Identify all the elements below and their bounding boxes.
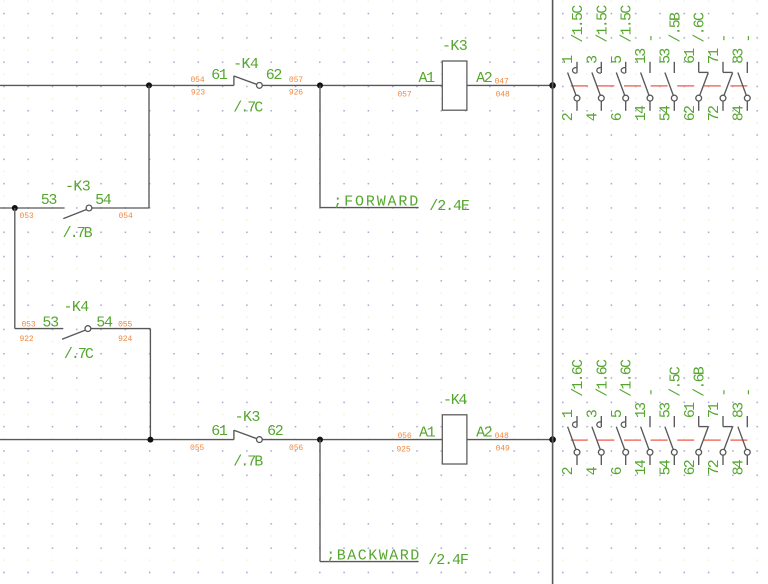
svg-text:-K4: -K4 (443, 392, 467, 409)
contact -K4 53-54 (NO) (62, 326, 91, 340)
svg-text:62: 62 (682, 106, 699, 121)
svg-text:-: - (716, 390, 733, 397)
wire FORWARD underline (320, 207, 419, 209)
svg-text:-K3: -K3 (65, 179, 91, 196)
mirror contact K3 pins 1/2 (MAIN) (568, 62, 580, 111)
svg-text:A2: A2 (476, 424, 492, 441)
node junction rung1/border (549, 82, 556, 89)
svg-text:83: 83 (731, 48, 748, 64)
svg-text:925: 925 (396, 446, 410, 455)
svg-text:14: 14 (633, 459, 650, 475)
contact -K4 61-62 (NC) (234, 76, 262, 89)
svg-text:049: 049 (496, 445, 510, 454)
svg-text:/.5B: /.5B (667, 12, 684, 43)
mirror contact K3 pins 53/54 (NO) (665, 62, 677, 111)
svg-text:-: - (716, 35, 733, 42)
svg-text:84: 84 (731, 105, 748, 121)
coil -K3 U-frame (442, 61, 467, 110)
svg-text:-: - (740, 35, 757, 42)
svg-text:A1: A1 (418, 70, 435, 87)
wire rung1 left segment (0, 84, 234, 86)
wire BACKWARD underline (320, 561, 419, 563)
mirror contact K4 pins 3/4 (MAIN) (592, 416, 604, 465)
wire rung2 mid segment (262, 439, 442, 441)
svg-text:-: - (740, 390, 757, 397)
svg-text:057: 057 (289, 76, 303, 85)
coil -K4 U-frame (442, 415, 467, 464)
node junction rung2/border (549, 436, 556, 443)
svg-text:61: 61 (211, 423, 228, 440)
wire K4-53-row right segment (91, 328, 151, 330)
mirror contact K3 pins 61/62 (NC) (696, 62, 709, 111)
svg-text:61: 61 (682, 402, 699, 418)
wire rung1 mid segment (262, 84, 442, 86)
svg-text:62: 62 (267, 423, 283, 440)
svg-text:/1.5C: /1.5C (570, 5, 587, 43)
wire FORWARD branch vertical (319, 85, 321, 207)
svg-text:A2: A2 (476, 70, 492, 87)
mirror contact K4 pins 5/6 (MAIN) (616, 416, 628, 465)
svg-text:053: 053 (20, 212, 34, 221)
svg-text:-K4: -K4 (233, 56, 259, 73)
svg-text:054: 054 (119, 212, 133, 221)
svg-text:/.7B: /.7B (233, 453, 263, 470)
svg-text:53: 53 (658, 48, 675, 64)
svg-text:53: 53 (41, 192, 58, 209)
svg-text:/.7C: /.7C (64, 346, 94, 363)
svg-text:-K4: -K4 (63, 299, 89, 316)
svg-text:;FORWARD: ;FORWARD (333, 194, 420, 211)
node junction rung2/branch (x=150.4) (147, 437, 153, 443)
svg-text:/.6B: /.6B (692, 366, 709, 397)
wire branch down x=14.8 (14, 208, 16, 329)
svg-text:056: 056 (397, 432, 411, 441)
wire K4-53-row left segment (15, 328, 64, 330)
node junction rung1/FORWARD branch (x=320) (317, 82, 323, 88)
mirror contact K3 pins 13/14 (NO) (641, 62, 653, 111)
svg-text:053: 053 (21, 320, 35, 329)
mirror contact K4 pins 71/72 (NC) (720, 416, 733, 465)
svg-text:72: 72 (706, 460, 723, 475)
mirror contact K4 pins 83/84 (NO) (738, 416, 750, 465)
svg-text:/1.5C: /1.5C (594, 5, 611, 43)
wire rung2 left segment (0, 439, 234, 441)
svg-text:54: 54 (658, 459, 675, 475)
wire 53-row left segment (0, 207, 65, 209)
svg-text:054: 054 (190, 76, 204, 85)
svg-text:;BACKWARD: ;BACKWARD (326, 548, 421, 565)
svg-text:71: 71 (706, 402, 723, 418)
node junction rung2/BACKWARD branch (317, 437, 323, 443)
svg-text:53: 53 (42, 314, 59, 331)
contact -K3 61-62 (NC) (234, 430, 262, 443)
svg-text:14: 14 (633, 105, 650, 121)
svg-text:-: - (643, 390, 660, 397)
svg-text:056: 056 (289, 444, 303, 453)
wire branch down x=149 (148, 85, 150, 208)
svg-text:-K3: -K3 (235, 409, 261, 426)
border line (ladder right rail) (552, 0, 554, 584)
svg-text:924: 924 (118, 335, 132, 344)
mirror contact K4 pins 53/54 (NO) (665, 416, 677, 465)
wire rung2 right segment (467, 439, 553, 441)
mirror contact K4 pins 13/14 (NO) (641, 416, 653, 465)
svg-text:61: 61 (682, 48, 699, 64)
svg-text:83: 83 (731, 402, 748, 418)
svg-text:61: 61 (211, 67, 228, 84)
svg-text:/1.6C: /1.6C (570, 359, 587, 397)
svg-text:2: 2 (560, 113, 577, 121)
svg-text:62: 62 (266, 67, 282, 84)
wire 53-row right segment (92, 207, 149, 209)
svg-text:926: 926 (289, 88, 303, 97)
svg-text:62: 62 (682, 460, 699, 475)
svg-text:-: - (643, 35, 660, 42)
svg-text:/2.4F: /2.4F (428, 552, 468, 569)
svg-text:-K3: -K3 (442, 38, 468, 55)
mirror contact K3 pins 83/84 (NO) (738, 62, 750, 111)
mirror contact K4 pins 61/62 (NC) (696, 416, 709, 465)
contact -K3 53-54 (NO) (63, 205, 92, 219)
svg-text:/1.6C: /1.6C (619, 359, 636, 397)
wire branch down x=150.4 (149, 329, 151, 440)
svg-text:54: 54 (658, 105, 675, 121)
svg-text:A1: A1 (419, 424, 436, 441)
svg-text:923: 923 (191, 88, 205, 97)
svg-text:13: 13 (633, 48, 650, 64)
svg-text:13: 13 (633, 402, 650, 418)
svg-text:84: 84 (731, 459, 748, 475)
mirror contact K3 pins 3/4 (MAIN) (592, 62, 604, 111)
svg-text:72: 72 (706, 106, 723, 121)
svg-text:057: 057 (397, 91, 411, 100)
mirror contact K4 pins 1/2 (MAIN) (568, 416, 580, 465)
svg-text:/1.5C: /1.5C (619, 5, 636, 43)
svg-text:/2.4E: /2.4E (429, 198, 470, 215)
red dashed contact-mirror line (K4) (571, 439, 752, 441)
red dashed contact-mirror line (K3) (571, 85, 752, 87)
node junction x=14.8 on 53-row (12, 205, 18, 211)
svg-text:922: 922 (20, 335, 34, 344)
svg-text:048: 048 (496, 91, 510, 100)
svg-text:/1.6C: /1.6C (594, 359, 611, 397)
svg-text:/.7B: /.7B (63, 225, 93, 242)
svg-text:/.5C: /.5C (667, 366, 684, 397)
svg-text:/.7C: /.7C (233, 100, 263, 117)
mirror contact K3 pins 5/6 (MAIN) (616, 62, 628, 111)
wire BACKWARD branch vertical (319, 440, 321, 562)
svg-text:055: 055 (190, 444, 204, 453)
mirror contact K3 pins 71/72 (NC) (720, 62, 733, 111)
wire rung1 right segment (467, 84, 553, 86)
svg-text:2: 2 (560, 467, 577, 475)
svg-text:53: 53 (658, 402, 675, 418)
svg-text:/.6C: /.6C (692, 12, 709, 43)
node junction rung1/branch-53 (x=149) (146, 82, 152, 88)
svg-text:71: 71 (706, 48, 723, 64)
svg-text:54: 54 (95, 192, 112, 209)
